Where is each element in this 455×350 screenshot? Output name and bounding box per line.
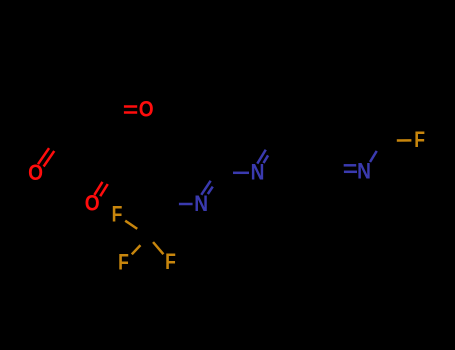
svg-text:O: O	[139, 97, 154, 122]
svg-text:F: F	[112, 203, 123, 227]
bond link C5a-Ck	[112, 172, 147, 175]
bond N2=C2	[264, 155, 269, 163]
bond C1t=Oa	[124, 105, 137, 108]
bond N3-C2b	[370, 151, 377, 162]
svg-text:N: N	[357, 160, 371, 185]
svg-text:F: F	[118, 251, 129, 275]
bond naphthyridine ring M	[222, 172, 258, 175]
svg-text:F: F	[165, 250, 176, 274]
bond naphthyridine ring A	[147, 142, 167, 173]
svg-text:O: O	[28, 161, 43, 186]
bond N3=C4b	[344, 171, 357, 174]
svg-text:N: N	[251, 161, 265, 186]
bond N2-C8a	[233, 172, 249, 175]
bond Cf-F1	[125, 221, 137, 229]
bond C2b-F4	[397, 139, 412, 142]
bond biaryl link	[277, 141, 310, 142]
bond Cf-F3	[153, 242, 163, 254]
bond Ck=Oc	[100, 184, 108, 196]
bond N1-C7	[179, 203, 193, 206]
bond C3t=Ob	[44, 151, 55, 167]
bond Cf-F2	[132, 245, 141, 254]
svg-text:F: F	[414, 128, 425, 152]
svg-text:O: O	[85, 191, 100, 216]
bond link Ck-C2t	[94, 141, 112, 173]
bond ring cyclohexanedione	[94, 110, 112, 142]
bond fluoropyridine ring B	[328, 171, 364, 174]
svg-text:N: N	[194, 192, 208, 217]
bond N1=C8a	[208, 187, 213, 194]
bond bond C7-CF3	[149, 204, 167, 237]
